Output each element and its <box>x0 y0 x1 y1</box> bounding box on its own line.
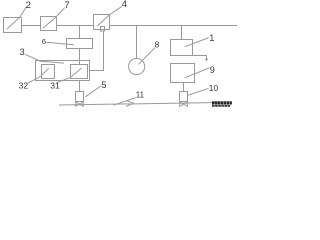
block 32 inner box <box>42 65 55 79</box>
wire block4 terminal to block 3 right edge <box>90 31 104 71</box>
block 6 <box>67 39 93 49</box>
leader 1 <box>185 38 209 47</box>
svg-text:9: 9 <box>210 65 215 75</box>
svg-text:6: 6 <box>42 37 46 46</box>
svg-text:8: 8 <box>155 40 160 50</box>
wire tap bus to block 1 <box>181 26 183 40</box>
wire bus segment box7-box4 <box>57 25 94 27</box>
arrowhead outlet <box>205 58 208 61</box>
watermark line 2 <box>212 105 230 107</box>
wire bus segment box4-right end <box>110 25 238 27</box>
valve actuator 10 box <box>180 92 188 102</box>
svg-text:5: 5 <box>102 80 107 90</box>
block 7 <box>41 17 57 31</box>
wire block 3 to valve actuator 5 <box>79 81 81 92</box>
leader 8 <box>139 48 156 65</box>
svg-text:10: 10 <box>209 83 219 93</box>
svg-text:4: 4 <box>122 0 127 10</box>
svg-text:2: 2 <box>26 0 31 11</box>
wire block 1 outlet with down arrow <box>193 56 207 60</box>
svg-text:3: 3 <box>20 47 25 57</box>
valve 5 bowtie <box>76 102 84 106</box>
wire tap bus to block 6 <box>79 26 81 39</box>
svg-text:32: 32 <box>19 81 29 91</box>
leader 7 <box>43 8 65 29</box>
leader 2 <box>7 7 26 29</box>
terminal square of block 4 <box>101 27 105 32</box>
block 2 <box>4 18 22 33</box>
block 9 <box>171 64 195 83</box>
leader 11 <box>114 98 136 106</box>
block 1 <box>171 40 193 56</box>
valve 10 bowtie <box>180 102 188 106</box>
leader 9 <box>185 68 210 78</box>
pipe line 11 <box>59 103 220 106</box>
sensor 8 circle <box>129 58 145 74</box>
leader 31 <box>57 68 82 83</box>
block 3 outer box <box>36 61 90 81</box>
valve actuator 5 box <box>76 92 84 102</box>
leader 3 <box>25 54 64 63</box>
wire block 6 to block 31 <box>79 49 81 65</box>
svg-text:7: 7 <box>64 0 69 11</box>
leader 4 <box>97 6 121 26</box>
svg-text:1: 1 <box>209 33 214 43</box>
block 31 inner box <box>71 65 88 79</box>
svg-text:31: 31 <box>50 81 60 91</box>
wire block 9 to valve actuator 10 <box>183 83 185 92</box>
wire tap bus to sensor 8 <box>136 26 138 59</box>
watermark line 1 <box>212 101 232 104</box>
block 4 <box>94 15 110 30</box>
leader 32 <box>28 68 49 83</box>
svg-text:11: 11 <box>136 90 145 99</box>
wire bus segment box2-box7 <box>22 25 41 27</box>
leader 10 <box>187 88 208 95</box>
pipe flow arrowhead <box>126 101 134 107</box>
leader 6 <box>46 42 74 44</box>
leader 5 <box>85 86 101 97</box>
